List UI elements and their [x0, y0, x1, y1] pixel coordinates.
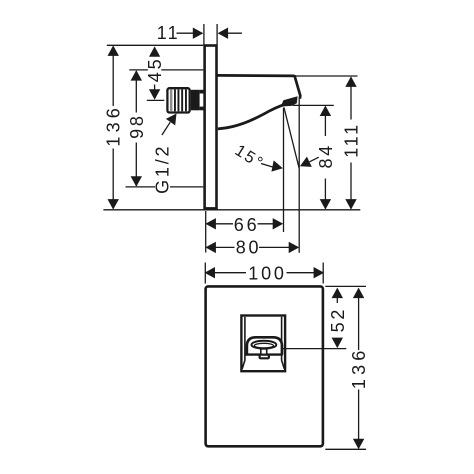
dim 84: top extension line	[293, 104, 334, 106]
svg-text:111: 111	[342, 122, 362, 158]
svg-text:136: 136	[349, 346, 369, 389]
dim 66: left extension line	[205, 211, 207, 253]
svg-text:G1/2: G1/2	[152, 144, 172, 194]
dim 45: bottom tick at connector centerline	[147, 99, 165, 101]
dim 136 front: top extension line	[325, 285, 366, 287]
dim 52: dimension line	[336, 289, 338, 347]
dim 11: extension lines	[204, 24, 217, 45]
angle reference vertical line	[283, 108, 285, 233]
dim 11: dimension line tails	[177, 32, 242, 34]
connector neck bottom bar	[200, 107, 205, 111]
dim 136 side: dimension line	[112, 47, 114, 209]
spout top edge (side view)	[217, 74, 294, 77]
dim 52: arrowheads	[332, 288, 343, 299]
outlet tab foot	[260, 355, 269, 359]
outlet tab neck	[261, 349, 267, 355]
dim 80: dimension line	[214, 246, 292, 248]
dim 98: extension lines	[126, 70, 204, 187]
front spout mouth arch	[247, 337, 282, 355]
common bottom reference line	[103, 209, 360, 211]
dim 98: arrowheads	[131, 70, 142, 81]
label G1/2 halo	[155, 144, 170, 197]
svg-text:66: 66	[234, 215, 260, 235]
dim 136 front: dimension line	[358, 289, 360, 448]
G1/2 threaded connector block	[167, 88, 189, 112]
svg-text:11: 11	[157, 23, 180, 43]
G1/2 leader line and arrowhead	[162, 122, 170, 135]
15 deg counter arrow (right)	[310, 157, 319, 162]
dim 80: right extension line	[298, 99, 300, 253]
front spout inner right wall	[282, 317, 285, 369]
dim 98: dimension line	[135, 71, 137, 186]
svg-text:45: 45	[145, 57, 165, 83]
front spout mouth bottom line	[245, 353, 283, 355]
dim 100: extension lines	[205, 263, 323, 284]
dim 136 side: top extension line	[107, 44, 204, 46]
svg-text:52: 52	[328, 307, 348, 333]
dim 45: arrowheads	[149, 46, 160, 57]
svg-text:136: 136	[104, 104, 124, 147]
spout tip bevel edge	[294, 75, 300, 99]
connector neck top bar	[200, 90, 205, 94]
dim 84: arrowheads	[320, 106, 331, 117]
front spout inner left wall	[242, 317, 245, 369]
svg-text:100: 100	[248, 264, 286, 284]
connector thread stripes	[170, 89, 187, 111]
dim 136 side: arrowheads	[108, 45, 119, 56]
wall plate (side view)	[205, 46, 217, 209]
dim 100: arrowheads	[205, 267, 216, 278]
outlet oval outer	[252, 341, 277, 349]
svg-text:98: 98	[127, 113, 147, 139]
dim 11: arrowheads	[193, 28, 204, 39]
svg-text:84: 84	[316, 143, 336, 169]
dim 111: top extension line	[296, 75, 358, 77]
dim 45: dimension line	[154, 48, 156, 91]
dim 52: extension line	[283, 348, 347, 350]
dim 84: dimension line	[324, 107, 326, 209]
front view wall plate	[206, 286, 323, 446]
dim 66: arrowheads	[205, 218, 216, 229]
label 45 halo	[148, 57, 161, 85]
outlet oval inner	[254, 343, 273, 348]
spout outlet wedge (filled)	[281, 96, 298, 106]
spout bottom curve	[218, 102, 294, 129]
dim 111: dimension line	[350, 78, 352, 209]
connector collar (solid)	[191, 90, 200, 111]
angle 15 deg slanted line	[284, 108, 299, 169]
15 deg leader line and arrowhead (left)	[261, 164, 274, 168]
dim 66: dimension line	[214, 223, 276, 225]
dim 111: arrowheads	[345, 76, 356, 87]
dim 136 front: bottom extension line	[325, 448, 366, 450]
svg-text:80: 80	[236, 238, 262, 258]
dim 100: dimension line	[215, 272, 315, 274]
dim 136 front: arrowheads	[353, 288, 364, 299]
dim 80: arrowheads	[205, 242, 216, 253]
front spout outer rectangle	[241, 316, 285, 372]
